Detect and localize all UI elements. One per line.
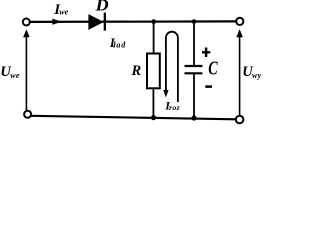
voltage arrow Uwe xyxy=(25,31,27,110)
svg-text:R: R xyxy=(131,63,142,79)
svg-text:C: C xyxy=(208,57,218,79)
top wire xyxy=(30,20,237,23)
minus sign xyxy=(205,85,212,88)
wire C-branch lower stem xyxy=(193,74,195,119)
svg-text:we: we xyxy=(59,7,68,16)
current arrow Iwe xyxy=(52,19,62,25)
node dot top C-branch xyxy=(192,19,197,24)
terminal top-right xyxy=(236,18,243,25)
wire C-branch upper stem xyxy=(193,22,195,66)
node dot bottom R-branch xyxy=(151,115,156,120)
svg-text:D: D xyxy=(95,0,109,15)
bottom wire xyxy=(31,116,237,120)
diode D triangle xyxy=(88,14,103,30)
svg-text:we: we xyxy=(10,71,20,80)
svg-text:roz: roz xyxy=(169,103,180,112)
svg-text:ład: ład xyxy=(112,40,126,49)
resistor R body xyxy=(147,54,160,89)
terminal bottom-right xyxy=(236,116,244,124)
svg-text:wy: wy xyxy=(252,71,262,80)
terminal bottom-left xyxy=(24,111,31,118)
voltage arrow Uwy xyxy=(239,31,241,115)
diode D cathode bar xyxy=(104,13,106,31)
capacitor C top plate xyxy=(185,65,203,67)
capacitor C bottom plate xyxy=(185,72,203,74)
plus sign xyxy=(202,48,210,58)
wire R-branch upper stem xyxy=(153,22,155,53)
discharge current loop arrow Iroz xyxy=(166,32,178,102)
terminal top-left xyxy=(23,19,30,26)
node dot top R-branch xyxy=(151,19,156,24)
node dot bottom C-branch xyxy=(191,115,196,120)
wire R-branch lower stem xyxy=(152,89,154,117)
